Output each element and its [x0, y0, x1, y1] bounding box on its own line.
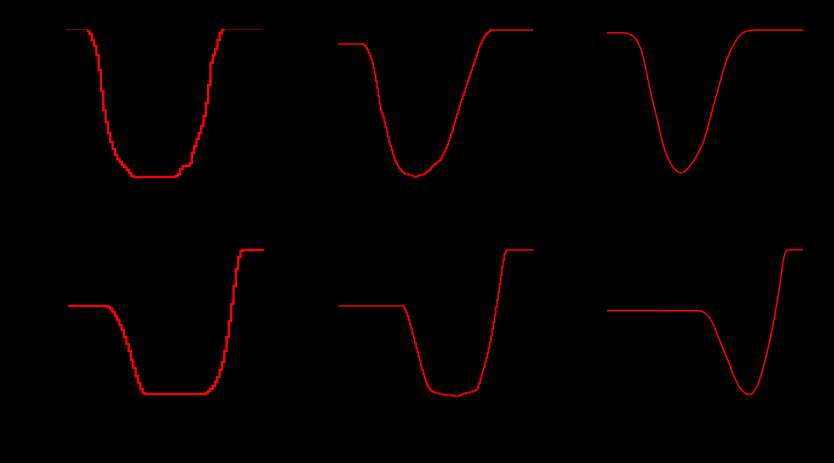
top-middle panel: fine binned light curve [338, 30, 533, 177]
bottom-left panel: coarse binned light curve [68, 250, 264, 394]
bottom-middle panel: fine binned light curve [339, 250, 534, 396]
top-left panel: faint smooth model line [66, 29, 263, 177]
top-left panel: coarse binned light curve [87, 30, 224, 177]
bottom-left panel: faint smooth model line [68, 250, 264, 395]
top-right panel: smooth light curve [607, 30, 804, 173]
bottom-right panel: smooth light curve [607, 250, 803, 395]
